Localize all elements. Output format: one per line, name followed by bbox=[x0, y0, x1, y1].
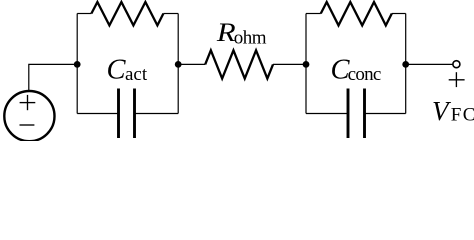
wire bottom-left lead of C_conc bbox=[306, 113, 348, 115]
wire left side of first parallel branch bbox=[76, 14, 78, 114]
plus sign at output bbox=[449, 72, 465, 87]
resistor R_act (activation, top of first branch) bbox=[91, 2, 163, 25]
wire right side of first parallel branch bbox=[177, 14, 179, 114]
capacitor C_conc plates bbox=[348, 89, 365, 139]
wire node D to output terminal bbox=[406, 63, 453, 65]
node D junction dot bbox=[402, 61, 409, 68]
svg-text:FC: FC bbox=[451, 105, 474, 126]
wire node B to R_ohm bbox=[178, 63, 205, 65]
node C junction dot bbox=[303, 61, 310, 68]
wire top-left lead of R_act bbox=[77, 13, 91, 15]
wire from source top to node A bbox=[29, 64, 77, 91]
output terminal (open circle) bbox=[453, 61, 460, 68]
svg-text:act: act bbox=[125, 64, 148, 85]
resistor R_ohm (series) bbox=[205, 50, 273, 78]
wire R_ohm to node C bbox=[273, 63, 306, 65]
wire right side of second parallel branch bbox=[405, 14, 407, 114]
plus sign inside source bbox=[20, 95, 36, 110]
wire left side of second parallel branch bbox=[305, 14, 307, 114]
wire bottom-left lead of C_act bbox=[77, 113, 118, 115]
resistor R_conc (concentration, top of second branch) bbox=[321, 2, 392, 25]
svg-text:C: C bbox=[107, 55, 127, 86]
voltage source E (circle) bbox=[4, 91, 54, 141]
node A junction dot bbox=[74, 61, 81, 68]
capacitor C_act plates bbox=[119, 89, 135, 139]
wire bottom-right lead of C_conc bbox=[365, 113, 406, 115]
node B junction dot bbox=[175, 61, 182, 68]
minus sign inside source bbox=[20, 124, 35, 126]
wire top-left lead of R_conc bbox=[306, 13, 321, 15]
wire bottom-right lead of C_act bbox=[135, 113, 179, 115]
svg-text:ohm: ohm bbox=[234, 28, 267, 49]
wire top-right lead of R_act bbox=[163, 13, 178, 15]
wire top-right lead of R_conc bbox=[392, 13, 406, 15]
svg-text:conc: conc bbox=[348, 64, 381, 85]
